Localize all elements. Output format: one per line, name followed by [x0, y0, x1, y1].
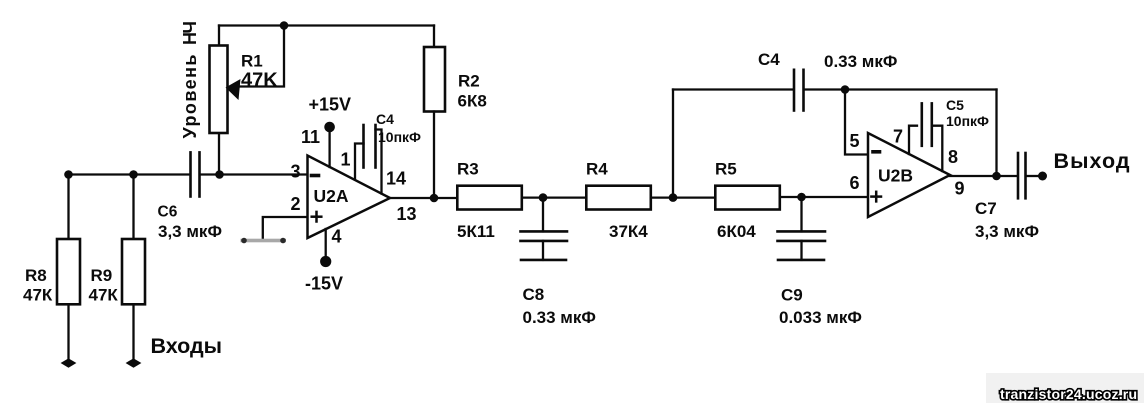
ground bar C9 — [778, 259, 824, 262]
svg-text:C4: C4 — [758, 50, 780, 69]
svg-text:НЧ: НЧ — [180, 21, 200, 45]
svg-text:0.33 мкФ: 0.33 мкФ — [523, 308, 596, 327]
wire R9 bottom lead — [132, 304, 134, 359]
resistor R3 — [457, 186, 522, 210]
svg-text:4: 4 — [332, 227, 342, 247]
capacitor C6 — [189, 152, 192, 196]
svg-text:С7: С7 — [975, 199, 997, 218]
wire C6 to pin3 — [201, 173, 308, 175]
svg-text:С6: С6 — [158, 204, 178, 221]
svg-text:1: 1 — [341, 150, 351, 170]
svg-text:R5: R5 — [715, 160, 737, 179]
svg-text:9: 9 — [955, 179, 965, 199]
wire top feedback R1/R2 — [219, 24, 434, 26]
svg-text:R1: R1 — [241, 52, 263, 71]
svg-text:R9: R9 — [91, 266, 113, 285]
resistor R2 — [424, 47, 445, 112]
wire -15V lead pin4 — [325, 229, 327, 257]
svg-text:10пкФ: 10пкФ — [378, 129, 421, 145]
capacitor C9 — [800, 197, 802, 231]
svg-text:Выход: Выход — [1054, 149, 1130, 173]
terminal input 1 — [61, 358, 77, 367]
svg-text:14: 14 — [386, 169, 406, 189]
node input left — [64, 170, 73, 179]
svg-text:11: 11 — [301, 127, 320, 147]
power +15V — [324, 122, 335, 133]
wire +15V lead — [328, 131, 330, 167]
svg-text:2: 2 — [290, 194, 300, 214]
svg-text:С9: С9 — [781, 286, 803, 305]
wire R3-R4 — [522, 196, 587, 198]
resistor R9 — [122, 239, 145, 304]
wire R8 top lead — [67, 175, 69, 240]
svg-text:R3: R3 — [457, 160, 479, 179]
svg-text:13: 13 — [397, 204, 417, 224]
node C9 tap — [797, 193, 806, 202]
svg-text:6: 6 — [850, 173, 860, 193]
svg-text:47К: 47К — [23, 286, 53, 305]
svg-text:R4: R4 — [586, 160, 608, 179]
svg-text:3,3 мкФ: 3,3 мкФ — [158, 222, 222, 241]
svg-text:R2: R2 — [458, 72, 480, 91]
svg-text:3: 3 — [290, 162, 300, 182]
watermark tranzistor24.ucoz.ru — [986, 373, 1144, 403]
svg-text:Входы: Входы — [151, 334, 223, 358]
svg-text:U2A: U2A — [314, 186, 349, 206]
wire R1 top lead — [218, 26, 220, 46]
terminal input 2 — [126, 358, 142, 367]
svg-text:37К4: 37К4 — [609, 222, 648, 241]
resistor R1 — [210, 46, 228, 134]
node input right — [129, 170, 138, 179]
svg-text:10пкФ: 10пкФ — [946, 113, 989, 129]
wire feedback down to output — [995, 90, 997, 177]
resistor R4 — [586, 186, 651, 210]
wire R8 bottom lead — [67, 304, 69, 359]
wire C7 to terminal — [1027, 175, 1040, 177]
svg-text:C4: C4 — [376, 111, 394, 127]
ground bar C8 — [521, 259, 566, 262]
wire U2B output — [950, 175, 1017, 177]
svg-text:C5: C5 — [946, 97, 964, 113]
wire pin2 to common — [263, 217, 308, 239]
wire to pin5 — [845, 90, 868, 155]
svg-text:U2B: U2B — [878, 166, 913, 186]
terminal output — [1038, 172, 1047, 181]
svg-text:+15V: +15V — [309, 95, 352, 115]
ground bar — [241, 239, 287, 243]
wire R5 to pin6 — [780, 196, 868, 198]
node C6/R1 — [215, 170, 224, 179]
capacitor C7 — [1017, 153, 1020, 198]
svg-text:R8: R8 — [25, 266, 47, 285]
wire feedback top right — [805, 88, 997, 90]
node junction wiper/top wire — [280, 21, 289, 30]
svg-text:0.33 мкФ: 0.33 мкФ — [824, 52, 897, 71]
node R2 bottom — [430, 194, 439, 203]
wire R1 wiper — [240, 26, 284, 87]
wire feedback up — [672, 90, 674, 198]
wire R2 top lead — [433, 26, 435, 48]
svg-text:8: 8 — [948, 147, 958, 167]
svg-text:tranzistor24.ucoz.ru: tranzistor24.ucoz.ru — [1000, 386, 1137, 402]
wire R1 bottom lead — [218, 133, 220, 175]
node feedback tap — [669, 193, 678, 202]
resistor R8 — [57, 239, 80, 304]
wiper arrow R1 — [226, 79, 241, 100]
node output/C7 — [992, 172, 1001, 181]
op-amp U2A — [308, 156, 391, 239]
svg-text:6К04: 6К04 — [717, 222, 756, 241]
power -15V — [320, 256, 331, 267]
resistor R5 — [715, 186, 780, 210]
wire R2 bottom lead — [433, 112, 435, 199]
wire U2A output — [390, 197, 457, 199]
node pin5 tap — [841, 85, 850, 94]
svg-text:3,3 мкФ: 3,3 мкФ — [975, 222, 1039, 241]
svg-text:5: 5 — [850, 131, 860, 151]
svg-text:Уровень: Уровень — [180, 55, 200, 139]
svg-text:0.033 мкФ: 0.033 мкФ — [779, 308, 862, 327]
op-amp U2B — [868, 133, 950, 217]
svg-text:47К: 47К — [89, 286, 119, 305]
wire feedback top left — [673, 88, 793, 90]
svg-text:5К11: 5К11 — [457, 222, 495, 241]
wire R9 top lead — [132, 175, 134, 240]
wire main input line — [69, 173, 190, 175]
svg-text:С8: С8 — [523, 285, 545, 304]
capacitor C8 — [542, 198, 544, 232]
svg-text:-15V: -15V — [305, 274, 343, 294]
capacitor C4 pin1-pin14 — [355, 144, 364, 180]
svg-text:47K: 47K — [241, 70, 278, 92]
svg-text:7: 7 — [893, 127, 903, 147]
node C8 tap — [539, 193, 548, 202]
capacitor C4 feedback — [793, 70, 796, 111]
wire R4-R5 — [651, 196, 716, 198]
capacitor C5 pin7-pin8 — [909, 126, 917, 154]
svg-text:6К8: 6К8 — [458, 92, 487, 111]
